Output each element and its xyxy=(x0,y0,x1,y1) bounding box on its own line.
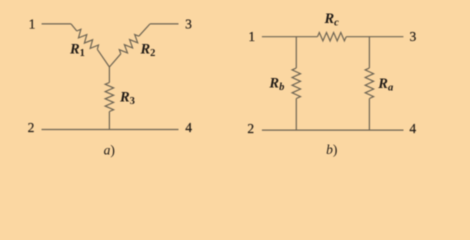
resistor Rc xyxy=(318,33,347,41)
wire: node to R3 xyxy=(108,67,110,83)
wire: terminal 1 horizontal (fig a) xyxy=(42,23,71,25)
wire: left branch lower (fig b) xyxy=(295,99,297,131)
wire: arm 2 upper diagonal xyxy=(139,24,150,36)
svg-text:3: 3 xyxy=(410,29,417,44)
svg-text:a): a) xyxy=(104,143,115,158)
svg-text:3: 3 xyxy=(185,16,192,31)
wire: left branch upper (fig b) xyxy=(295,37,297,68)
svg-text:2: 2 xyxy=(247,121,254,136)
svg-text:1: 1 xyxy=(248,29,255,44)
resistor R2 xyxy=(119,35,139,54)
svg-text:4: 4 xyxy=(409,121,416,136)
wire: bottom rail fig a (terminal 2 to 4) xyxy=(42,129,179,131)
wire: right branch lower (fig b) xyxy=(368,99,370,131)
resistor R1 xyxy=(77,29,99,49)
wire: right branch upper (fig b) xyxy=(368,37,370,68)
resistor Rb xyxy=(292,68,300,99)
wire: bottom rail fig b (terminal 2 to 4) xyxy=(262,129,404,131)
wire: right of Rc to terminal 3 (fig b) xyxy=(346,36,403,38)
svg-text:b): b) xyxy=(326,142,337,157)
wire: arm 2 lower diagonal from node xyxy=(109,54,120,67)
wire: terminal 1 to left tee (fig b) xyxy=(262,36,318,38)
svg-text:2: 2 xyxy=(28,120,35,135)
svg-text:4: 4 xyxy=(185,120,192,135)
wire: terminal 3 horizontal (fig a) xyxy=(150,23,179,25)
svg-text:1: 1 xyxy=(29,16,36,31)
resistor Ra xyxy=(365,68,373,99)
wire: R3 to bottom rail xyxy=(108,112,110,130)
wire: arm 1 lower diagonal to node xyxy=(97,49,109,67)
resistor R3 xyxy=(105,83,113,112)
wire: arm 1 upper diagonal xyxy=(71,24,77,31)
